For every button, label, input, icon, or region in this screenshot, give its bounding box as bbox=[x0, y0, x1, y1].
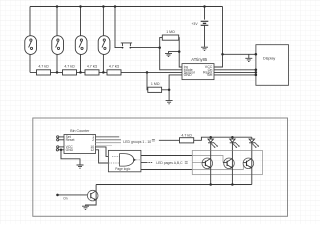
transistor Q2 bbox=[223, 150, 234, 174]
wire sensor junction down bbox=[146, 72, 149, 89]
wire display gnd stem bbox=[248, 54, 250, 58]
svg-text:2: 2 bbox=[92, 138, 94, 142]
svg-text:Bin Counter: Bin Counter bbox=[70, 129, 90, 133]
counter input terminals bbox=[56, 136, 59, 151]
ground q4 bbox=[82, 206, 89, 209]
svg-text:4.7 kΩ: 4.7 kΩ bbox=[38, 65, 49, 69]
svg-text:GND: GND bbox=[66, 148, 74, 152]
LED D1 bbox=[208, 137, 218, 150]
svg-text:1 MΩ: 1 MΩ bbox=[166, 30, 175, 34]
node dots top rail bbox=[56, 5, 257, 91]
node dots led rail bbox=[209, 136, 212, 139]
svg-text:4.7 kΩ: 4.7 kΩ bbox=[109, 65, 120, 69]
push button bbox=[121, 43, 132, 48]
ground display bbox=[245, 58, 252, 61]
wire resistor row bbox=[30, 71, 182, 73]
ground irq bbox=[165, 53, 172, 56]
switch S4 bbox=[98, 36, 110, 55]
wire switch column 1 bbox=[29, 7, 31, 73]
resistor 1M upper bbox=[162, 35, 178, 40]
resistor R1 4.7k bbox=[37, 70, 51, 75]
wire vcc to display bbox=[223, 53, 256, 55]
resistor R4 4.7k bbox=[107, 70, 121, 75]
svg-text:4.7 kΩ: 4.7 kΩ bbox=[87, 65, 98, 69]
led pages lines bbox=[141, 156, 192, 170]
wire battery drop bbox=[204, 7, 206, 20]
svg-text:ATtiny85: ATtiny85 bbox=[191, 57, 208, 62]
svg-text:Display: Display bbox=[263, 56, 275, 60]
resistor 1M lower bbox=[148, 87, 162, 92]
LED D3 bbox=[249, 137, 259, 150]
svg-text:Reset: Reset bbox=[66, 138, 75, 142]
node dots display pins bbox=[221, 53, 224, 56]
ground battery bbox=[201, 47, 208, 50]
transistor Q1 bbox=[202, 150, 213, 174]
svg-text:1 MΩ: 1 MΩ bbox=[151, 82, 160, 86]
svg-text:4.7 kΩ: 4.7 kΩ bbox=[181, 133, 192, 137]
gate input wires bbox=[108, 156, 140, 163]
bottom rail bbox=[96, 184, 252, 186]
wire 1M right to Irq bbox=[179, 38, 182, 67]
counter output wires 1,2,4,8 bbox=[96, 136, 120, 138]
svg-text:+3V: +3V bbox=[191, 22, 198, 26]
page logic feed wire B bbox=[96, 150, 109, 163]
switch S2 bbox=[52, 36, 64, 55]
svg-text:12: 12 bbox=[90, 148, 94, 152]
resistor R3 4.7k bbox=[85, 70, 99, 75]
battery +3V bbox=[201, 21, 209, 25]
wire irq gnd tap bbox=[169, 52, 180, 53]
resistor 4.7k led bbox=[180, 138, 194, 143]
wire set bbox=[59, 136, 64, 138]
node dots resistor row bbox=[56, 71, 59, 74]
svg-text:LED pages A,B,C: LED pages A,B,C bbox=[156, 161, 183, 165]
switch S3 bbox=[75, 36, 87, 55]
node dot gnd pin net bbox=[168, 89, 171, 92]
wire switch column 4 bbox=[102, 7, 104, 73]
wire resistor to led rail bbox=[194, 137, 252, 140]
counter box Bin Counter bbox=[64, 135, 96, 154]
switch S1 bbox=[25, 36, 37, 55]
op IC U1 ATtiny85 bbox=[182, 64, 214, 80]
wire ic to display rows bbox=[214, 70, 256, 75]
svg-text:GND: GND bbox=[184, 73, 192, 77]
svg-text:LED groups 1 - 10: LED groups 1 - 10 bbox=[123, 140, 151, 144]
wire switch column 2 bbox=[56, 7, 58, 73]
page logic feed wire A bbox=[96, 147, 113, 157]
ground ic gnd bbox=[166, 101, 173, 104]
svg-text:On: On bbox=[63, 197, 67, 201]
svg-text:Set: Set bbox=[207, 73, 212, 77]
resistor R2 4.7k bbox=[63, 70, 77, 75]
wire button to node bbox=[132, 47, 160, 49]
wire vcc bbox=[59, 146, 64, 148]
svg-text:4.7 kΩ: 4.7 kΩ bbox=[64, 65, 75, 69]
bottom module box bbox=[33, 118, 288, 216]
ground counter bbox=[77, 165, 84, 168]
display box bbox=[256, 45, 289, 86]
wire node to 1M left bbox=[160, 38, 182, 70]
LED D2 bbox=[230, 137, 240, 150]
wire to series resistor bbox=[159, 139, 180, 141]
transistor Q4 bbox=[86, 185, 98, 206]
On net node bbox=[56, 194, 59, 197]
node dot gnd bbox=[60, 149, 63, 152]
wire battery to ground bbox=[204, 26, 206, 47]
page logic box bbox=[108, 150, 140, 171]
display pin dots bbox=[255, 53, 258, 76]
wire gnd to ground bbox=[61, 150, 80, 165]
node dot button net bbox=[158, 46, 161, 49]
wire gnd bbox=[59, 149, 65, 151]
wire vcc column bbox=[214, 7, 223, 68]
internal gray routes bbox=[192, 156, 243, 170]
transistor array box bbox=[192, 150, 262, 174]
emitter drops to rail bbox=[96, 175, 252, 185]
wire top rail bbox=[30, 6, 223, 8]
wire switch column 3 bbox=[80, 7, 82, 73]
nand gate bbox=[120, 154, 134, 167]
transistor Q3 bbox=[243, 150, 254, 174]
wire on to q4 base bbox=[59, 194, 91, 196]
wire reset bbox=[59, 139, 64, 141]
wire button drop bbox=[115, 7, 121, 48]
svg-text:Page logic: Page logic bbox=[115, 167, 131, 171]
node dot irq gnd bbox=[178, 50, 181, 53]
wire 1M2 right junction bbox=[162, 75, 182, 101]
